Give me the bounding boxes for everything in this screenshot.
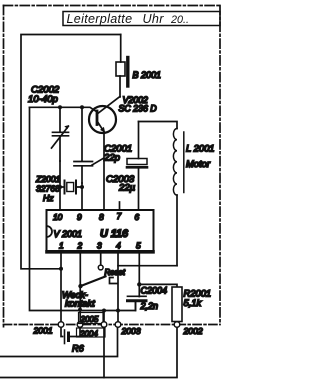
svg-text:6: 6	[135, 212, 140, 222]
resistor R2001 branch	[139, 284, 177, 287]
svg-text:C2004: C2004	[141, 286, 168, 296]
node dot bus-trimmer	[58, 105, 62, 109]
junction dot H1 / pad2004	[102, 309, 106, 313]
svg-text:Uhr: Uhr	[143, 12, 165, 26]
quartz Z2001	[58, 161, 84, 210]
svg-text:4: 4	[116, 241, 121, 251]
node pad 2004	[101, 322, 107, 328]
svg-text:Z2001: Z2001	[35, 174, 61, 184]
dash-dot bottom connector line	[4, 324, 221, 326]
svg-text:Hz: Hz	[43, 193, 54, 203]
IC U116 V2001	[47, 210, 154, 252]
svg-text:32768: 32768	[36, 184, 60, 194]
svg-text:22p: 22p	[103, 153, 121, 164]
capacitor C2004	[128, 296, 147, 310]
wire pin4 down + motor branch	[118, 252, 177, 266]
title box	[63, 12, 220, 26]
dash-dot frame top	[4, 5, 221, 7]
wire: outer left loop (top edge + left edge to pin1)	[21, 35, 121, 269]
wire pad 2004 external down	[103, 327, 105, 377]
wire H1 to pad 2004	[103, 311, 105, 322]
node pad 2003	[115, 322, 121, 328]
svg-text:7: 7	[117, 211, 122, 221]
battery R6	[61, 327, 80, 343]
boxed label 2005	[79, 313, 104, 324]
svg-text:2004: 2004	[79, 329, 98, 338]
weckkontakt bracket	[110, 278, 118, 284]
node pad 2001	[58, 322, 64, 328]
node junction dot pin1	[59, 267, 63, 271]
wire: oscillator bus	[30, 107, 98, 112]
reset switch contact	[100, 252, 102, 265]
wire pin5 down	[138, 252, 140, 297]
svg-text:B 2001: B 2001	[133, 70, 162, 80]
switch lever (reset/weckkontakt)	[81, 276, 106, 286]
svg-text:U 116: U 116	[100, 228, 129, 240]
svg-text:9: 9	[77, 212, 82, 222]
svg-text:8: 8	[99, 212, 104, 222]
buzzer B2001	[116, 35, 128, 98]
pin 7 stub	[119, 202, 121, 210]
capacitor C2001	[74, 107, 93, 183]
svg-text:1: 1	[59, 241, 64, 251]
svg-text:L 2001: L 2001	[186, 143, 215, 154]
svg-text:2,2n: 2,2n	[140, 301, 159, 311]
wire: inner left drop + ground rail H1	[30, 107, 136, 310]
svg-text:10: 10	[53, 212, 63, 222]
node dot bus-C2001	[80, 105, 84, 109]
svg-text:5: 5	[136, 241, 141, 251]
svg-text:SC 236 D: SC 236 D	[119, 104, 158, 114]
svg-text:2: 2	[77, 241, 83, 251]
boxed label 2004	[77, 328, 106, 337]
dash-dot frame right	[219, 6, 221, 325]
node pad 2002	[174, 322, 180, 328]
node pad 2005	[77, 322, 83, 328]
inductor L2001 motor	[139, 122, 184, 266]
wire pin2 down	[79, 252, 81, 286]
svg-text:V 2001: V 2001	[54, 229, 83, 239]
svg-text:10-40p: 10-40p	[28, 94, 59, 105]
wire pin2 net to pad 2005	[79, 286, 81, 322]
svg-text:2001: 2001	[33, 326, 53, 336]
svg-text:2005: 2005	[80, 315, 99, 324]
svg-text:22µ: 22µ	[118, 183, 136, 194]
svg-text:20..: 20..	[170, 14, 189, 26]
svg-text:2002: 2002	[183, 326, 203, 336]
svg-text:Motor: Motor	[186, 158, 211, 169]
dash-dot frame left	[3, 6, 5, 327]
svg-text:R6: R6	[72, 344, 85, 354]
wire pin1 down	[60, 252, 62, 322]
svg-text:kontakt: kontakt	[65, 298, 95, 308]
wire pad 2003 external	[0, 327, 118, 356]
svg-text:Reset: Reset	[105, 268, 126, 277]
svg-text:3: 3	[97, 241, 102, 251]
wire pad 2002 external	[0, 327, 177, 377]
svg-text:5,1k: 5,1k	[184, 297, 203, 308]
svg-text:Leiterplatte: Leiterplatte	[67, 12, 133, 26]
capacitor C2002 trimmer	[52, 107, 70, 161]
capacitor C2003	[127, 122, 147, 211]
transistor V2002	[89, 97, 120, 211]
svg-text:2003: 2003	[121, 326, 141, 336]
